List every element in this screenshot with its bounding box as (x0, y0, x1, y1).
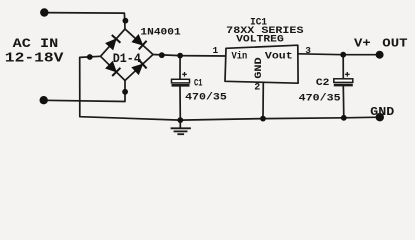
svg-text:470/35: 470/35 (185, 91, 227, 103)
svg-text:1: 1 (213, 45, 219, 56)
svg-text:VOLTREG: VOLTREG (236, 34, 284, 45)
svg-text:OUT: OUT (382, 36, 407, 50)
svg-text:V+: V+ (354, 36, 371, 50)
svg-text:12-18V: 12-18V (5, 52, 65, 67)
svg-text:C2: C2 (316, 77, 330, 89)
svg-text:AC IN: AC IN (13, 36, 59, 51)
svg-text:Vin: Vin (232, 51, 248, 63)
svg-text:470/35: 470/35 (299, 93, 341, 105)
svg-text:GND: GND (370, 105, 394, 119)
svg-text:Vout: Vout (265, 51, 293, 63)
svg-text:3: 3 (305, 45, 311, 56)
svg-text:1N4001: 1N4001 (140, 27, 180, 38)
svg-text:D1-4: D1-4 (113, 51, 141, 66)
svg-text:GND: GND (254, 57, 265, 79)
svg-text:C1: C1 (194, 79, 203, 90)
svg-text:2: 2 (254, 83, 260, 94)
